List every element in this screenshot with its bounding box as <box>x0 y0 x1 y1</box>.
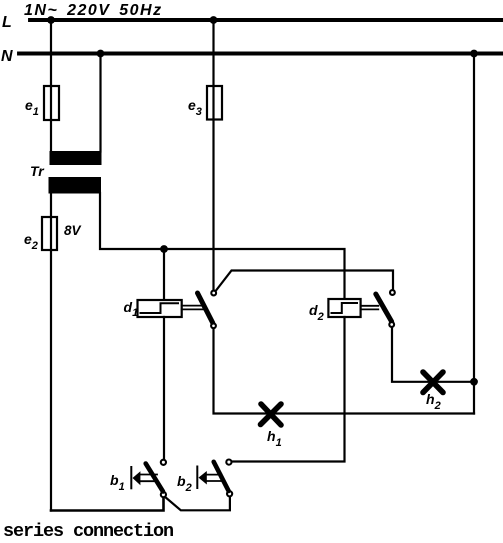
pushbutton b1 blade <box>146 464 163 492</box>
svg-text:1N~ 220V 50Hz: 1N~ 220V 50Hz <box>24 2 163 19</box>
svg-text:b1: b1 <box>110 472 125 493</box>
svg-text:e3: e3 <box>188 97 202 118</box>
pushbutton b2 actuator <box>197 467 221 489</box>
svg-text:d2: d2 <box>309 302 324 323</box>
lamp h1 <box>261 404 282 425</box>
pushbutton b2 lower terminal <box>227 491 232 496</box>
contact d2 blade <box>376 294 392 322</box>
node L to e3 <box>210 16 218 24</box>
relay coil d2 <box>328 299 360 317</box>
wire d2 coil down and across to b2 <box>232 317 344 462</box>
wire L down through e1 to transformer primary <box>50 20 52 152</box>
pushbutton b1 lower terminal <box>161 492 166 497</box>
node L to e1 <box>47 16 55 24</box>
contact d1 lower terminal <box>211 323 216 328</box>
svg-text:L: L <box>2 14 12 31</box>
svg-text:d1: d1 <box>124 299 139 319</box>
wire junction down to d1 coil <box>163 249 165 300</box>
svg-text:h2: h2 <box>426 391 441 412</box>
wire N down to transformer primary <box>99 54 101 152</box>
wire secondary right down and across to d2 coil <box>100 193 345 299</box>
wire d2 contact down and across through h2 to N rail <box>392 328 474 382</box>
pushbutton b1 actuator <box>131 467 157 488</box>
contact d1 upper terminal <box>211 291 216 296</box>
node N to transformer <box>97 50 105 58</box>
svg-text:series connection: series connection <box>3 521 173 542</box>
svg-text:e2: e2 <box>24 231 38 252</box>
fuse e1 <box>44 86 59 120</box>
fuse e2 <box>42 217 57 250</box>
svg-text:8V: 8V <box>64 223 82 238</box>
wire d1 coil down to b1 <box>163 317 165 459</box>
wire N rail down right side <box>473 54 475 414</box>
svg-text:Tr: Tr <box>30 163 45 179</box>
pushbutton b2 upper terminal <box>226 460 231 465</box>
fuse e3 <box>207 86 222 120</box>
lamp h2 <box>423 372 443 393</box>
pushbutton b2 blade <box>214 462 229 491</box>
svg-text:h1: h1 <box>267 428 282 449</box>
relay coil d1 <box>138 300 182 317</box>
pushbutton b1 upper terminal <box>161 460 166 465</box>
svg-text:N: N <box>1 48 13 65</box>
svg-text:b2: b2 <box>177 473 192 494</box>
wire d1 contact to d2 contact <box>216 271 393 291</box>
linkage d2 coil to contact <box>361 306 379 310</box>
node h2 junction on N rail <box>470 378 478 386</box>
contact d1 blade <box>198 293 213 323</box>
wire bus L <box>30 18 503 22</box>
contact d2 lower terminal <box>389 322 394 327</box>
wire secondary left down through e2 to bottom <box>50 193 52 511</box>
node coil feed junction <box>160 245 168 253</box>
wire bus N <box>19 52 503 56</box>
wire bottom return to b1 <box>51 498 164 511</box>
transformer Tr secondary winding bar <box>49 177 102 194</box>
wire b1 to b2 bottom link <box>165 497 230 510</box>
contact d2 upper terminal <box>390 290 395 295</box>
node N to lamp rail <box>470 50 478 58</box>
linkage d1 coil to contact <box>182 306 204 310</box>
wire L through e3 down to d1 contact <box>212 20 214 290</box>
wire d1 contact down and across through h1 to N rail <box>214 329 475 414</box>
svg-text:e1: e1 <box>25 97 39 118</box>
transformer Tr primary winding bar <box>50 151 102 165</box>
